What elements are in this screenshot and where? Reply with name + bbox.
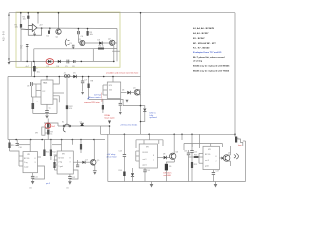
arrow above riser (108, 121, 111, 125)
svg-text:10u: 10u (37, 72, 40, 74)
svg-text:1n: 1n (20, 48, 22, 50)
resistor R20A (102, 99, 104, 105)
svg-text:B3-B4 may be replaced with NE5: B3-B4 may be replaced with NE555 (193, 65, 230, 68)
svg-text:1 gnd: 1 gnd (24, 167, 28, 169)
diode M2 (132, 168, 134, 173)
capacitor C 4u7 polarized (33, 66, 36, 71)
svg-text:8: 8 (70, 157, 71, 159)
wire drop q2 emitter (113, 46, 115, 61)
wire riser at junction (109, 126, 111, 134)
svg-text:10k: 10k (90, 34, 93, 36)
wire cap drop (33, 61, 35, 76)
svg-text:C17: C17 (216, 171, 219, 173)
svg-text:R6 1k: R6 1k (99, 46, 104, 48)
svg-text:horn: horn (238, 145, 242, 147)
bottom-right cluster (184, 134, 246, 187)
capacitor C wA2 (73, 60, 75, 63)
wire hanging r (87, 29, 89, 37)
svg-text:R12: R12 (52, 152, 55, 154)
capacitor C wA1 (67, 60, 69, 64)
top-right transistor cluster (235, 137, 237, 143)
wire switch row left jog (44, 123, 58, 126)
resistor M dark (123, 172, 125, 177)
bottom-left cluster (8, 140, 96, 185)
resistor R fb (48, 31, 50, 34)
wire drop c2 (33, 49, 35, 62)
diode D1 in red circle (48, 60, 51, 63)
right vertical to bottom (245, 141, 247, 182)
wire opamp out (37, 27, 117, 30)
wire IC2 bottom loop to bus (108, 99, 141, 105)
IC D pins left (199, 152, 203, 154)
wire ic1 top feed (46, 77, 48, 81)
cap below IC C (144, 168, 146, 170)
cap right of IC B (77, 160, 79, 165)
text annotations (2, 17, 239, 180)
wire over IC C (136, 139, 163, 141)
connector J1 (64, 75, 67, 78)
resistor below red circle (47, 130, 49, 135)
wire R divider down (20, 29, 22, 61)
IC D block (203, 146, 219, 169)
transistor QL (90, 160, 96, 166)
svg-text:S1: S1 (62, 122, 64, 124)
svg-text:Q4: Q4 (133, 88, 135, 90)
ground mid (126, 100, 129, 103)
drop 182 (181, 134, 183, 140)
wire ic1 right pin C (53, 99, 57, 114)
svg-text:C8: C8 (27, 86, 29, 88)
wire opamp power (37, 13, 39, 24)
svg-text:10n: 10n (29, 188, 32, 190)
resistor on switch feed (66, 105, 68, 109)
svg-text:Q6: Q6 (176, 152, 178, 154)
capacitor hang L2 (16, 140, 18, 144)
ground R (214, 184, 218, 188)
svg-text:R10: R10 (11, 145, 14, 147)
svg-text:3: 3 (35, 162, 36, 164)
wire ic1 left pins (36, 83, 41, 85)
ground under wireA left (8, 62, 11, 65)
svg-text:8: 8 (216, 156, 217, 158)
resistor hang L1 (9, 140, 11, 143)
transistor QR (223, 155, 230, 162)
ground M (150, 184, 154, 188)
svg-text:unsolder and remove wire link: unsolder and remove wire link here (106, 71, 139, 74)
svg-text:7: 7 (153, 160, 154, 162)
svg-text:optional: optional (150, 116, 158, 119)
switch S1 (65, 124, 70, 126)
left edge drop (107, 134, 109, 181)
IC A right loop (33, 166, 45, 179)
wire opamp top chain (20, 13, 22, 29)
wire drop to red circle (47, 119, 49, 124)
wire ic2 top feed (112, 77, 114, 83)
red highlight circle 1 (46, 59, 54, 65)
wire over IC D (184, 143, 222, 145)
IC1 regulator block (41, 80, 53, 104)
wire cap row (34, 48, 73, 50)
left edge drop R (199, 134, 201, 148)
svg-text:+5V bus line feeds: +5V bus line feeds (120, 124, 137, 126)
transistor Q3 (80, 40, 85, 45)
wire riser left of rail (100, 126, 102, 134)
wire sub rail left (9, 148, 11, 151)
IC B right loop (70, 170, 78, 179)
svg-text:B1 555: B1 555 (24, 158, 29, 160)
capacitor C q (77, 31, 79, 34)
resistor left of IC D (196, 156, 199, 158)
svg-text:8: 8 (35, 158, 36, 160)
wire battery dimension line (8, 13, 10, 62)
svg-text:R11: R11 (46, 152, 49, 154)
IC A block (23, 152, 38, 173)
svg-text:of wiring: of wiring (193, 61, 203, 63)
svg-text:B adapted from T17 and K5: B adapted from T17 and K5 (193, 51, 222, 54)
resistor R s1 (88, 84, 90, 89)
capacitor C in1 (29, 82, 31, 86)
svg-text:remove R20 wire: remove R20 wire (84, 101, 101, 104)
wire bottom-left rail (8, 139, 105, 141)
cap hang M3 (191, 134, 193, 150)
IC A pin right top (38, 156, 42, 158)
capacitor C s1 (81, 80, 84, 82)
resistor R 10k (87, 31, 89, 36)
svg-text:1 gnd: 1 gnd (59, 166, 63, 168)
svg-text:gnd 1: gnd 1 (205, 166, 209, 168)
svg-text:2 trg: 2 trg (24, 161, 27, 164)
resistor RB left (53, 162, 55, 168)
wire switch row (58, 125, 110, 127)
diode base QL (82, 161, 85, 164)
ground ic1 (45, 116, 49, 119)
under IC B cap (69, 174, 71, 176)
resistor RA2 (50, 140, 52, 150)
wire ic1 right pin A (53, 77, 59, 85)
diode on switch row (80, 123, 84, 126)
wire ic1 right pin B (53, 92, 64, 94)
svg-text:B2 555: B2 555 (59, 157, 64, 159)
svg-text:A1, A4, A6 - BC547B: A1, A4, A6 - BC547B (193, 27, 214, 30)
wire sub feed (17, 144, 30, 146)
wire gnd row under ic1 (33, 113, 57, 115)
svg-text:K1 - K7 - BD140: K1 - K7 - BD140 (193, 47, 210, 50)
diode D2 (58, 60, 61, 63)
cap below IC D (212, 170, 214, 172)
wire IC B out to diode (73, 161, 82, 163)
wire ic2 right pin to diode (121, 92, 127, 94)
svg-text:B5 555: B5 555 (205, 154, 210, 156)
svg-text:D9: D9 (169, 166, 171, 168)
transistor QM (170, 153, 176, 159)
ground A (31, 181, 35, 184)
svg-text:R16: R16 (194, 155, 197, 157)
wire cap to gnd (30, 86, 32, 97)
svg-text:+: + (37, 101, 38, 103)
ground B (68, 181, 72, 184)
capacitor C row1 (26, 45, 29, 47)
svg-text:gnd 1: gnd 1 (143, 165, 147, 167)
svg-text:Q5: Q5 (97, 160, 99, 162)
svg-text:D7: D7 (86, 160, 88, 162)
svg-text:R15: R15 (194, 164, 197, 166)
op-amp U1 (21, 24, 42, 37)
wire feed IC B (61, 140, 63, 145)
cap left IC D (187, 152, 190, 154)
IC B pins left (54, 154, 58, 156)
wire hang res supply (88, 77, 90, 84)
red annotations (84, 71, 242, 177)
svg-text:C14: C14 (147, 170, 150, 172)
svg-text:10n: 10n (66, 188, 69, 190)
svg-text:B3 555: B3 555 (143, 152, 148, 154)
capacitor C b1 (45, 110, 49, 112)
transistor Q1 (56, 29, 61, 34)
resistor R div (20, 24, 22, 28)
svg-text:14k: 14k (15, 27, 18, 29)
wire q1 rail drop (58, 13, 60, 29)
transistor Q5 (134, 90, 140, 96)
wire ic2 left pins (103, 84, 107, 86)
svg-text:On/1: On/1 (51, 126, 55, 128)
wire ic1 loop (53, 96, 59, 103)
wire hang cap supply (82, 77, 84, 81)
svg-text:Q8: Q8 (236, 138, 238, 140)
diode D supply (73, 75, 76, 78)
wire cap2 down (32, 97, 34, 103)
svg-text:2 trg: 2 trg (59, 161, 62, 164)
pot VR box (42, 127, 45, 135)
wire drop to supply (31, 61, 33, 76)
wire A inside box (9, 60, 114, 62)
IC C pins left (136, 150, 139, 152)
svg-text:7805: 7805 (43, 83, 47, 85)
svg-text:1u: 1u (49, 108, 51, 110)
highlight annotation box (16, 12, 120, 67)
svg-text:C9: C9 (80, 122, 82, 124)
IC C block (139, 144, 157, 168)
svg-text:1k: 1k (50, 134, 52, 136)
svg-text:B5-B6 may be replaced with TS5: B5-B6 may be replaced with TS555 (193, 70, 230, 73)
svg-text:IC3: IC3 (109, 85, 112, 87)
under IC A cap (32, 173, 34, 176)
svg-text:out 3: out 3 (143, 158, 147, 161)
svg-text:R14: R14 (119, 170, 122, 172)
svg-text:4.5 - 9 V: 4.5 - 9 V (2, 31, 6, 41)
wire left bus (7, 77, 9, 140)
wire bottom-right rail (101, 133, 236, 135)
red highlight circle 2 (45, 123, 51, 128)
resistor RA1 (43, 140, 45, 150)
capacitor C out1 polarized (32, 103, 35, 109)
svg-text:C12: C12 (72, 177, 75, 179)
notes text block (193, 27, 230, 72)
wire opamp input chain (27, 13, 29, 26)
svg-text:IC2: IC2 (43, 91, 46, 93)
svg-text:out 3: out 3 (205, 159, 209, 162)
bottom-middle cluster (108, 134, 246, 187)
wire right vertical bus (234, 13, 236, 136)
wire inner right bus (116, 29, 118, 62)
wire drop c1 (26, 44, 28, 61)
svg-text:7: 7 (216, 161, 217, 163)
wire cap row right (73, 48, 117, 50)
LED branch on mid bus (141, 106, 145, 108)
wire top rail (9, 12, 235, 14)
wire supply below box (8, 76, 141, 78)
svg-text:D8: D8 (163, 154, 165, 156)
svg-text:555: 555 (109, 90, 112, 92)
drop 81 (80, 140, 82, 145)
bottom wire (108, 181, 246, 183)
cap hang M1 (123, 134, 125, 154)
svg-text:blower motor: blower motor (89, 96, 101, 99)
svg-text:C13: C13 (119, 151, 122, 153)
svg-text:BL-T placed bit, values moved: BL-T placed bit, values moved (193, 56, 225, 59)
diode D mid (127, 91, 130, 95)
wire mid vertical bus (140, 13, 142, 135)
wire ic1 left cap branch (31, 83, 36, 85)
wire J1 to switch (66, 77, 68, 124)
svg-text:C10: C10 (19, 147, 22, 149)
wire hanging cap (77, 29, 79, 44)
svg-text:C11: C11 (35, 177, 38, 179)
wire fb drop (49, 28, 51, 30)
LED M dark (165, 164, 168, 171)
svg-text:A2, A3 - BC557: A2, A3 - BC557 (193, 32, 209, 35)
svg-text:C15: C15 (194, 152, 197, 154)
svg-text:red LED: red LED (164, 174, 172, 177)
IC2 block (107, 82, 120, 99)
wire ic1 bottom (46, 104, 48, 110)
varistor in red circle (47, 123, 49, 127)
svg-text:3: 3 (70, 162, 71, 164)
diode into QR (219, 157, 221, 159)
capacitor C mid2 (119, 99, 121, 102)
ground QL (93, 170, 97, 172)
svg-text:B1 - BC547: B1 - BC547 (193, 37, 205, 40)
ground under C s1 (81, 92, 84, 95)
svg-text:BF - 9P6LLW BF - 9P7: BF - 9P6LLW BF - 9P7 (193, 43, 217, 45)
IC B block (57, 151, 73, 174)
svg-text:C16: C16 (184, 151, 187, 153)
ground C mid2 (119, 112, 122, 115)
wire drop c9 (92, 49, 94, 62)
wire gnd row ic1 (31, 96, 36, 98)
speaker arcs (234, 155, 236, 159)
diode to QM (157, 157, 163, 159)
drop 72 (71, 140, 73, 145)
transistor Q2 (110, 40, 115, 45)
wire B transistor row (80, 42, 117, 44)
IC A pins left (19, 155, 23, 157)
svg-text:Q7: Q7 (228, 153, 230, 155)
mic curve (65, 39, 67, 46)
resistor R top1 (27, 16, 29, 19)
blue annotations (29, 94, 157, 189)
svg-text:8: 8 (153, 155, 154, 157)
battery arrows (8, 13, 10, 15)
svg-text:pin 3: pin 3 (46, 183, 50, 185)
capacitor C row2 (72, 45, 75, 49)
resistor R row (98, 48, 104, 50)
diode D b (99, 41, 102, 44)
wire q2 collector stub (112, 50, 120, 52)
svg-text:47k: 47k (69, 108, 72, 110)
wire feed IC A (29, 140, 31, 152)
svg-text:leave open: leave open (105, 117, 116, 119)
svg-text:driver feed: driver feed (107, 156, 118, 159)
svg-text:D6: D6 (122, 90, 124, 92)
